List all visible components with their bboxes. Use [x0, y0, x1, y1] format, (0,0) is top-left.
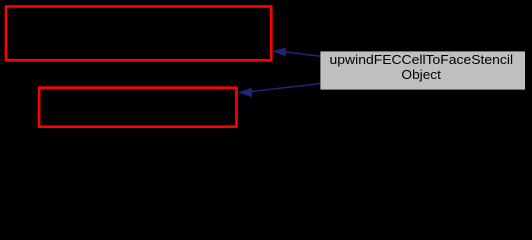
svg-text:upwindFECCellToFaceStencil: upwindFECCellToFaceStencil	[330, 52, 514, 67]
svg-text:Object: Object	[401, 67, 441, 82]
